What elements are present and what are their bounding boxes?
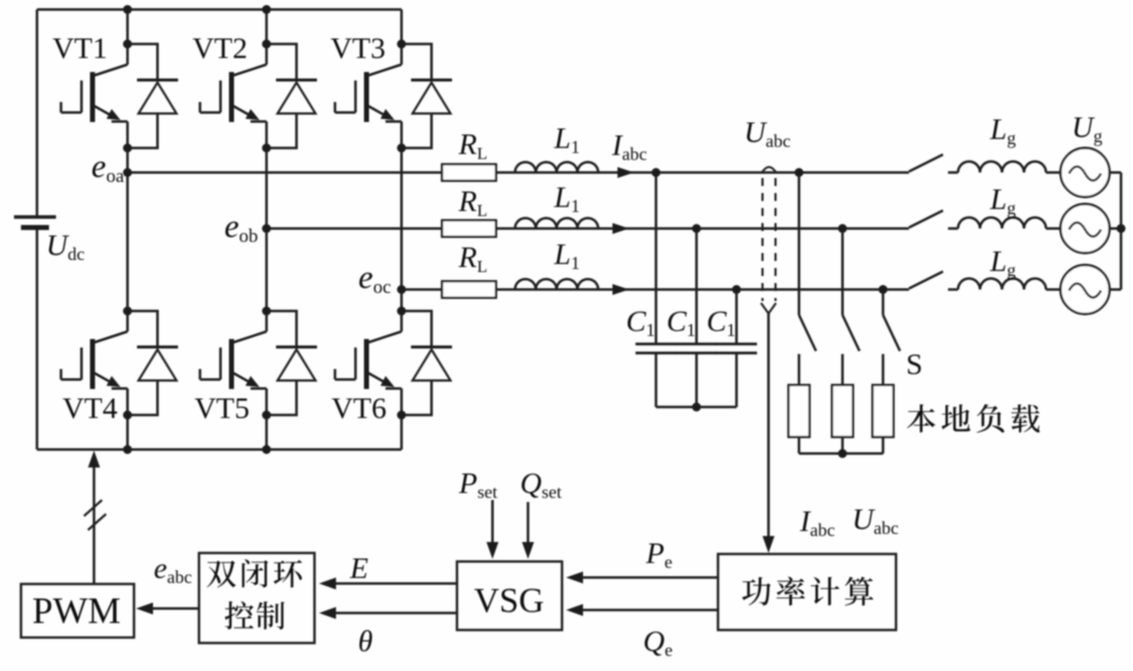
svg-text:S: S (906, 348, 923, 381)
wire leg 3 upper (400, 10, 403, 45)
wire C_1 a upper (655, 173, 658, 344)
inductor L_g phase a (958, 162, 1046, 173)
wire grid bus top (1110, 171, 1122, 174)
node collector VT1 (123, 40, 132, 49)
junction leg 1 / top rail (123, 5, 132, 14)
arrow PWM to bridge (88, 451, 100, 468)
diode antiparallel of VT3 (402, 44, 453, 148)
DC source Udc (battery) (14, 217, 56, 228)
gate bundle slash 1 (84, 500, 102, 516)
junction C_1 b / phase b (692, 224, 701, 233)
diode antiparallel of VT2 (267, 44, 318, 148)
arrow Q_e into VSG (566, 604, 583, 616)
wire load branch c lower (882, 437, 885, 454)
wire top DC rail (37, 8, 402, 11)
capacitor C_1 phase b (676, 344, 717, 353)
wire load branch a upper (798, 173, 801, 316)
resistor R_L phase b (442, 220, 496, 237)
wire load branch c upper (882, 290, 885, 316)
wire leg 2 middle (265, 148, 268, 311)
resistor local load b (832, 385, 853, 437)
current arrow phase c (613, 284, 630, 295)
wire load branch b upper (841, 229, 844, 316)
svg-text:VT1: VT1 (53, 32, 108, 65)
svg-text:VT5: VT5 (195, 392, 250, 425)
svg-text:VSG: VSG (474, 581, 544, 620)
wire E from VSG (325, 582, 457, 585)
node emitter VT2 (262, 144, 271, 153)
arrow Q_set into VSG (522, 542, 534, 559)
transistor VT6 (IGBT) (335, 311, 402, 415)
switch S load branch c blade (883, 315, 900, 351)
svg-text:PWM: PWM (32, 591, 120, 632)
wire leg 2 lower (265, 415, 268, 450)
junction grid bus mid (1117, 224, 1126, 233)
wire load branch a lower (798, 437, 801, 454)
inductor L_g phase b (958, 218, 1046, 229)
node e_oa (123, 168, 132, 177)
wire DC link left (-) (36, 229, 39, 450)
resistor R_L phase c (442, 281, 496, 298)
junction load branch c / phase c (879, 285, 888, 294)
arrow theta into dual-loop (319, 607, 336, 619)
diode antiparallel of VT6 (402, 311, 453, 415)
resistor local load a (789, 385, 810, 437)
wire grid phase b stub (948, 227, 958, 230)
transistor VT3 (IGBT) (335, 44, 402, 148)
wire grid bus bottom (1110, 288, 1122, 291)
wire Q_e (572, 609, 718, 612)
switch grid phase b blade (909, 211, 943, 228)
resistor R_L phase a (442, 164, 496, 181)
svg-text:θ: θ (358, 625, 373, 658)
inductor L_1 phase c (515, 279, 598, 289)
wire grid bus vertical (1120, 173, 1123, 290)
junction leg 2 / bottom rail (262, 445, 271, 454)
transistor VT1 (IGBT) (61, 44, 128, 148)
probe U_abc hop arc (762, 167, 776, 173)
wire C_1 b upper (695, 229, 698, 344)
arrow P_e into VSG (566, 572, 583, 584)
node e_oc (397, 285, 406, 294)
wire load branch b lower (841, 437, 844, 454)
AC source U_g phase a (1061, 148, 1110, 197)
arrow P_set into VSG (487, 542, 499, 559)
probe U_abc dashed pair (763, 178, 776, 301)
junction load branch b / phase b (838, 224, 847, 233)
wire C_1 c lower (735, 353, 738, 407)
node e_ob (262, 224, 271, 233)
node emitter VT3 (397, 144, 406, 153)
inductor L_g phase c (958, 279, 1046, 290)
wire phase c (402, 288, 910, 291)
wire P_e (572, 576, 718, 579)
svg-text:VT6: VT6 (332, 392, 387, 425)
label dual closed-loop line2 (225, 601, 285, 629)
node collector VT3 (397, 40, 406, 49)
junction load branch a / phase a (795, 168, 804, 177)
transistor VT2 (IGBT) (200, 44, 267, 148)
wire load branch c mid (882, 354, 885, 385)
block power calculation (718, 554, 896, 630)
node emitter VT5 (262, 411, 271, 420)
svg-text:VT2: VT2 (193, 32, 248, 65)
wire C_1 b lower (695, 353, 698, 407)
gate bundle slash 2 (88, 514, 106, 530)
transistor VT5 (IGBT) (200, 311, 267, 415)
wire leg 1 middle (126, 148, 129, 311)
wire PWM gate drive (93, 461, 96, 584)
current arrow phase b (613, 223, 630, 234)
wire theta from VSG (325, 612, 457, 615)
wire phase b (267, 227, 910, 230)
switch S load branch a blade (799, 315, 816, 351)
wire DC link left (+) (36, 10, 39, 217)
node emitter VT4 (123, 411, 132, 420)
node collector VT6 (397, 307, 406, 316)
wire measurement drop to power calc (767, 314, 770, 546)
svg-text:VT3: VT3 (331, 32, 386, 65)
current arrow phase a (618, 167, 635, 178)
junction C_1 a / phase a (652, 168, 661, 177)
wire P_set arrow (491, 500, 494, 549)
svg-text:VT4: VT4 (63, 392, 118, 425)
arrow into power calc block (763, 536, 775, 553)
junction load star (838, 449, 847, 458)
junction leg 1 / bottom rail (123, 445, 132, 454)
junction star point (692, 403, 701, 412)
block PWM (21, 584, 134, 638)
wire load star point (799, 452, 883, 455)
switch grid phase a blade (909, 155, 943, 172)
node emitter VT1 (123, 144, 132, 153)
wire capacitor star point (656, 406, 737, 409)
label local load (ben di fu zai) (907, 404, 1040, 433)
wire L_g to source b (1046, 227, 1061, 230)
transistor VT4 (IGBT) (61, 311, 128, 415)
node emitter VT6 (397, 411, 406, 420)
wire C_1 c upper (735, 290, 738, 344)
junction C_1 c / phase c (732, 285, 741, 294)
arrow into PWM (136, 603, 153, 615)
wire grid phase c stub (948, 288, 958, 291)
wire L_g to source a (1046, 171, 1061, 174)
wire leg 2 upper (265, 10, 268, 45)
resistor local load c (873, 385, 894, 437)
svg-text:E: E (349, 552, 368, 585)
wire leg 1 upper (126, 10, 129, 45)
switch S load branch b blade (843, 315, 860, 351)
wire Q_set arrow (527, 502, 530, 549)
wire dual-loop to PWM (142, 607, 199, 610)
capacitor C_1 phase a (636, 344, 677, 353)
node collector VT5 (262, 307, 271, 316)
wire grid bus mid (1110, 227, 1122, 230)
node collector VT4 (123, 307, 132, 316)
junction leg 2 / top rail (262, 5, 271, 14)
wire load branch a mid (798, 354, 801, 385)
label power calculation (742, 577, 873, 606)
diode antiparallel of VT1 (128, 44, 179, 148)
wire leg 1 lower (126, 415, 129, 450)
wire leg 3 lower (400, 415, 403, 450)
arrow E into dual-loop (319, 578, 336, 590)
wire C_1 a lower (655, 353, 658, 407)
wire grid phase a stub (948, 171, 958, 174)
probe U_abc bottom vee (761, 303, 776, 314)
AC source U_g phase c (1061, 265, 1110, 314)
wire leg 3 middle (400, 148, 403, 311)
wire bottom DC rail (37, 448, 402, 451)
inductor L_1 phase a (515, 162, 598, 172)
capacitor C_1 phase c (716, 344, 757, 353)
block VSG (457, 562, 562, 631)
node collector VT2 (262, 40, 271, 49)
wire load branch b mid (841, 354, 844, 385)
diode antiparallel of VT4 (128, 311, 179, 415)
AC source U_g phase b (1061, 204, 1110, 253)
inductor L_1 phase b (515, 218, 598, 228)
wire phase a (128, 171, 910, 174)
diode antiparallel of VT5 (267, 311, 318, 415)
block dual closed-loop control (199, 553, 315, 643)
switch grid phase c blade (909, 272, 943, 289)
label dual closed-loop line1 (207, 559, 302, 587)
wire L_g to source c (1046, 288, 1061, 291)
